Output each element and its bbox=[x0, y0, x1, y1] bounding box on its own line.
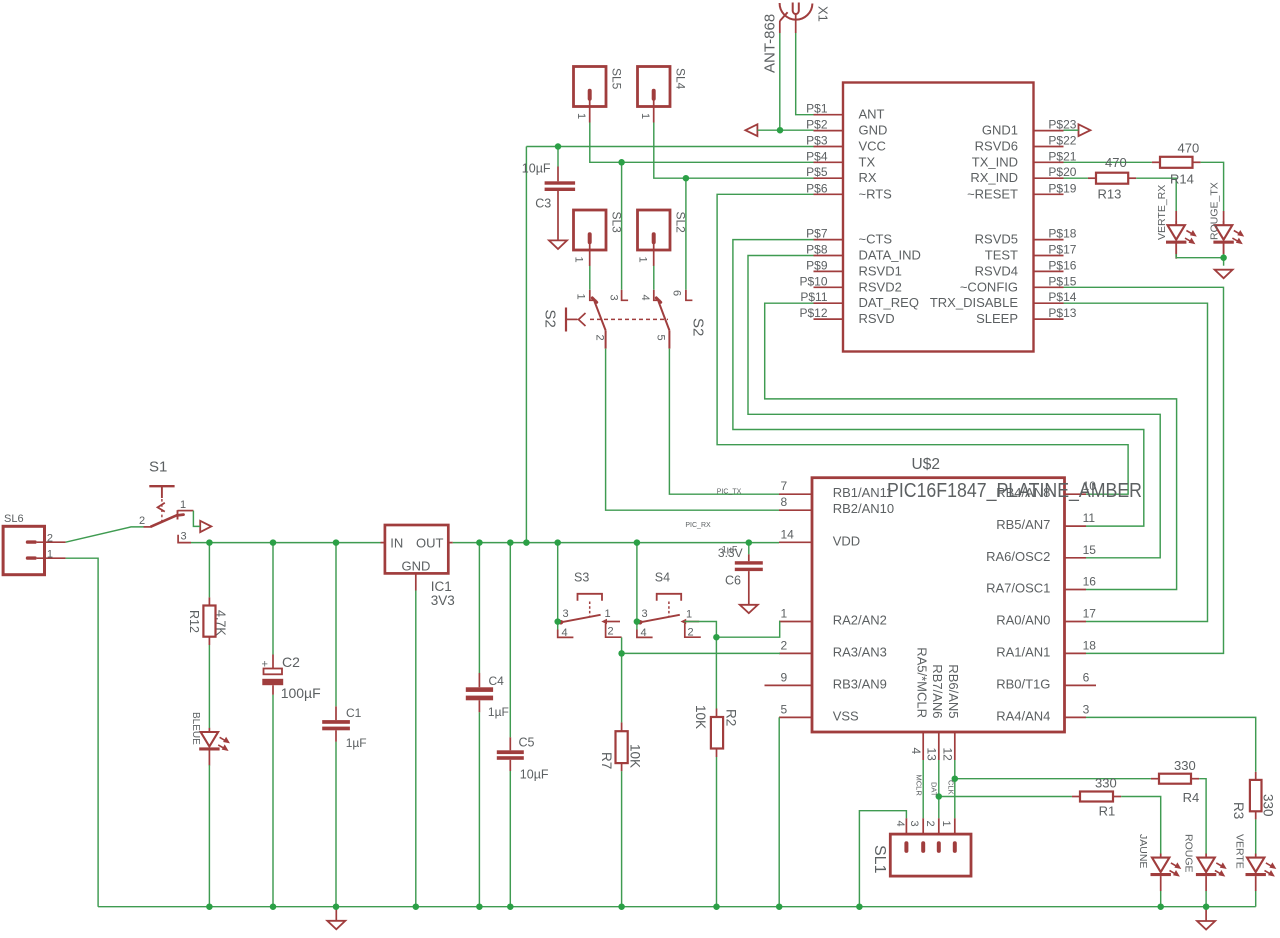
svg-text:P$2: P$2 bbox=[806, 118, 828, 132]
svg-text:6: 6 bbox=[671, 290, 683, 296]
svg-text:~CTS: ~CTS bbox=[859, 232, 893, 247]
svg-text:DAT_REQ: DAT_REQ bbox=[859, 295, 919, 310]
svg-text:P$5: P$5 bbox=[806, 165, 828, 179]
svg-text:4: 4 bbox=[639, 295, 651, 301]
svg-text:3.3V: 3.3V bbox=[718, 546, 743, 560]
svg-text:2: 2 bbox=[594, 335, 606, 341]
svg-text:RB1/AN11: RB1/AN11 bbox=[833, 485, 893, 500]
svg-text:RB6/AN5: RB6/AN5 bbox=[946, 664, 961, 718]
svg-text:P$15: P$15 bbox=[1048, 274, 1076, 288]
svg-text:17: 17 bbox=[1083, 607, 1097, 621]
svg-text:DAT: DAT bbox=[930, 782, 939, 797]
svg-text:P$18: P$18 bbox=[1048, 227, 1076, 241]
svg-text:MCLR: MCLR bbox=[915, 775, 924, 797]
svg-text:SL4: SL4 bbox=[674, 68, 688, 90]
svg-text:CLK: CLK bbox=[947, 780, 956, 795]
svg-text:R7: R7 bbox=[599, 752, 614, 769]
svg-text:JAUNE: JAUNE bbox=[1137, 834, 1149, 868]
svg-text:RA5/*MCLR: RA5/*MCLR bbox=[914, 647, 929, 718]
svg-text:RSVD2: RSVD2 bbox=[859, 279, 902, 294]
svg-text:330: 330 bbox=[1260, 794, 1275, 817]
svg-text:9: 9 bbox=[781, 670, 788, 684]
svg-text:ROUGE_TX: ROUGE_TX bbox=[1209, 182, 1221, 240]
svg-text:R14: R14 bbox=[1170, 172, 1194, 187]
svg-text:R2: R2 bbox=[723, 709, 738, 726]
svg-text:RA1/AN1: RA1/AN1 bbox=[996, 644, 1050, 659]
svg-text:U$2: U$2 bbox=[912, 456, 940, 473]
svg-text:GND1: GND1 bbox=[982, 123, 1018, 138]
svg-text:VSS: VSS bbox=[833, 708, 859, 723]
svg-text:P$7: P$7 bbox=[806, 227, 828, 241]
svg-text:VERTE: VERTE bbox=[1233, 834, 1245, 869]
svg-text:GND: GND bbox=[859, 123, 888, 138]
svg-text:C3: C3 bbox=[535, 197, 551, 211]
svg-text:3: 3 bbox=[642, 608, 648, 620]
svg-text:4: 4 bbox=[562, 627, 568, 639]
svg-text:4: 4 bbox=[909, 748, 923, 755]
svg-text:2: 2 bbox=[688, 627, 694, 639]
svg-text:RSVD4: RSVD4 bbox=[975, 263, 1018, 278]
svg-text:SL2: SL2 bbox=[674, 212, 688, 234]
svg-text:1: 1 bbox=[637, 257, 649, 263]
svg-text:OUT: OUT bbox=[416, 536, 444, 551]
svg-text:S4: S4 bbox=[655, 570, 670, 584]
svg-text:PIC_RX: PIC_RX bbox=[685, 522, 711, 529]
svg-text:RSVD6: RSVD6 bbox=[975, 139, 1018, 154]
svg-text:IN: IN bbox=[390, 536, 403, 551]
svg-text:P$17: P$17 bbox=[1048, 243, 1076, 257]
svg-text:4.7K: 4.7K bbox=[214, 610, 228, 636]
svg-text:1µF: 1µF bbox=[346, 736, 367, 750]
svg-text:IC1: IC1 bbox=[431, 579, 452, 594]
svg-text:2: 2 bbox=[924, 821, 936, 827]
svg-text:470: 470 bbox=[1178, 140, 1200, 155]
svg-text:10µF: 10µF bbox=[520, 768, 549, 782]
svg-text:18: 18 bbox=[1083, 638, 1097, 652]
svg-text:RB3/AN9: RB3/AN9 bbox=[833, 676, 887, 691]
svg-text:PIC16F1847_PLATINE_AMBER: PIC16F1847_PLATINE_AMBER bbox=[887, 480, 1142, 502]
svg-text:R3: R3 bbox=[1231, 802, 1246, 819]
svg-text:SL3: SL3 bbox=[610, 212, 624, 234]
svg-text:SL1: SL1 bbox=[871, 845, 888, 874]
svg-text:R12: R12 bbox=[187, 610, 201, 633]
svg-text:~CONFIG: ~CONFIG bbox=[960, 279, 1018, 294]
svg-text:1: 1 bbox=[781, 607, 788, 621]
svg-text:S2: S2 bbox=[690, 318, 707, 336]
svg-text:6: 6 bbox=[1083, 670, 1090, 684]
svg-text:~RESET: ~RESET bbox=[967, 186, 1018, 201]
svg-text:~RTS: ~RTS bbox=[859, 186, 893, 201]
svg-text:P$8: P$8 bbox=[806, 243, 828, 257]
svg-text:P$22: P$22 bbox=[1048, 134, 1076, 148]
svg-text:1: 1 bbox=[940, 821, 952, 827]
svg-text:2: 2 bbox=[608, 626, 614, 638]
svg-text:VERTE_RX: VERTE_RX bbox=[1156, 185, 1168, 240]
svg-text:ANT: ANT bbox=[859, 107, 885, 122]
svg-text:RSVD1: RSVD1 bbox=[859, 263, 902, 278]
svg-text:2: 2 bbox=[139, 515, 145, 527]
svg-text:100µF: 100µF bbox=[281, 685, 321, 701]
svg-text:S1: S1 bbox=[149, 459, 167, 476]
svg-text:TX: TX bbox=[859, 154, 876, 169]
svg-text:2: 2 bbox=[47, 533, 53, 545]
svg-text:PIC_TX: PIC_TX bbox=[717, 489, 742, 496]
svg-text:P$10: P$10 bbox=[799, 274, 827, 288]
svg-text:P$13: P$13 bbox=[1048, 306, 1076, 320]
svg-text:P$3: P$3 bbox=[806, 134, 828, 148]
svg-text:RA2/AN2: RA2/AN2 bbox=[833, 613, 887, 628]
svg-text:GND: GND bbox=[402, 559, 431, 574]
svg-text:330: 330 bbox=[1174, 758, 1196, 773]
svg-text:BLEUE: BLEUE bbox=[190, 712, 201, 745]
svg-text:RSVD: RSVD bbox=[859, 311, 895, 326]
svg-text:1: 1 bbox=[573, 257, 585, 263]
svg-text:1µF: 1µF bbox=[488, 705, 509, 719]
svg-text:P$11: P$11 bbox=[800, 290, 827, 304]
svg-text:RX: RX bbox=[859, 170, 877, 185]
svg-text:3: 3 bbox=[181, 531, 187, 543]
svg-text:11: 11 bbox=[1083, 511, 1096, 525]
svg-text:RB2/AN10: RB2/AN10 bbox=[833, 501, 894, 516]
svg-text:16: 16 bbox=[1083, 575, 1097, 589]
svg-text:S2: S2 bbox=[542, 310, 559, 328]
svg-text:4: 4 bbox=[641, 627, 647, 639]
svg-text:5: 5 bbox=[781, 702, 788, 716]
svg-text:RB7/AN6: RB7/AN6 bbox=[930, 664, 945, 718]
svg-text:3: 3 bbox=[563, 608, 569, 620]
svg-text:1: 1 bbox=[180, 499, 186, 511]
svg-text:7: 7 bbox=[781, 479, 788, 493]
svg-text:3: 3 bbox=[1083, 702, 1090, 716]
svg-text:RSVD5: RSVD5 bbox=[975, 232, 1018, 247]
svg-text:RB0/T1G: RB0/T1G bbox=[996, 676, 1050, 691]
svg-text:14: 14 bbox=[781, 527, 795, 541]
svg-text:P$21: P$21 bbox=[1048, 149, 1076, 163]
svg-text:TEST: TEST bbox=[985, 248, 1018, 263]
svg-text:S3: S3 bbox=[574, 570, 589, 584]
svg-text:SLEEP: SLEEP bbox=[976, 311, 1018, 326]
svg-text:3V3: 3V3 bbox=[431, 593, 455, 608]
svg-text:TRX_DISABLE: TRX_DISABLE bbox=[930, 295, 1018, 310]
svg-text:3: 3 bbox=[608, 295, 620, 301]
svg-text:330: 330 bbox=[1095, 776, 1117, 791]
svg-text:1: 1 bbox=[686, 609, 692, 621]
svg-text:X1: X1 bbox=[816, 6, 831, 22]
svg-text:R13: R13 bbox=[1098, 187, 1122, 202]
svg-text:P$9: P$9 bbox=[806, 258, 828, 272]
svg-text:15: 15 bbox=[1083, 543, 1097, 557]
svg-text:4: 4 bbox=[894, 821, 906, 827]
svg-text:P$4: P$4 bbox=[806, 149, 828, 163]
svg-text:1: 1 bbox=[575, 113, 587, 119]
svg-text:P$23: P$23 bbox=[1048, 118, 1076, 132]
svg-text:P$1: P$1 bbox=[806, 102, 828, 116]
svg-text:P$12: P$12 bbox=[799, 306, 827, 320]
svg-text:C5: C5 bbox=[519, 736, 535, 750]
svg-text:13: 13 bbox=[924, 748, 938, 762]
svg-text:ANT-868: ANT-868 bbox=[762, 14, 779, 73]
svg-text:RA0/AN0: RA0/AN0 bbox=[996, 613, 1050, 628]
svg-text:VCC: VCC bbox=[859, 139, 886, 154]
svg-text:470: 470 bbox=[1105, 155, 1127, 170]
svg-text:5: 5 bbox=[655, 335, 667, 341]
svg-text:2: 2 bbox=[781, 638, 788, 652]
svg-text:P$20: P$20 bbox=[1048, 165, 1076, 179]
svg-text:+: + bbox=[262, 659, 268, 671]
svg-text:P$19: P$19 bbox=[1048, 181, 1076, 195]
svg-text:TX_IND: TX_IND bbox=[972, 154, 1018, 169]
svg-text:C4: C4 bbox=[489, 674, 505, 688]
svg-text:C1: C1 bbox=[346, 706, 362, 720]
svg-text:RX_IND: RX_IND bbox=[970, 170, 1018, 185]
svg-text:VDD: VDD bbox=[833, 533, 860, 548]
svg-text:8: 8 bbox=[781, 495, 788, 509]
svg-text:10K: 10K bbox=[693, 705, 708, 729]
svg-text:DATA_IND: DATA_IND bbox=[859, 248, 921, 263]
svg-text:1: 1 bbox=[639, 113, 651, 119]
svg-text:RA3/AN3: RA3/AN3 bbox=[833, 644, 887, 659]
svg-text:1: 1 bbox=[47, 549, 53, 561]
svg-text:P$14: P$14 bbox=[1048, 290, 1076, 304]
svg-text:12: 12 bbox=[940, 748, 954, 762]
svg-text:P$16: P$16 bbox=[1048, 258, 1076, 272]
svg-text:RA7/OSC1: RA7/OSC1 bbox=[986, 581, 1050, 596]
svg-text:10K: 10K bbox=[627, 744, 642, 768]
svg-text:P$6: P$6 bbox=[806, 181, 828, 195]
svg-text:ROUGE: ROUGE bbox=[1183, 834, 1195, 873]
svg-text:C2: C2 bbox=[282, 654, 300, 670]
svg-text:RB5/AN7: RB5/AN7 bbox=[996, 517, 1050, 532]
svg-text:RA6/OSC2: RA6/OSC2 bbox=[986, 549, 1050, 564]
svg-text:SL6: SL6 bbox=[4, 513, 24, 525]
svg-text:RA4/AN4: RA4/AN4 bbox=[996, 708, 1050, 723]
svg-text:C6: C6 bbox=[725, 574, 741, 588]
svg-text:10µF: 10µF bbox=[522, 161, 551, 175]
svg-text:3: 3 bbox=[908, 821, 920, 827]
svg-text:1: 1 bbox=[575, 294, 587, 300]
svg-text:1: 1 bbox=[605, 608, 611, 620]
svg-text:R1: R1 bbox=[1099, 804, 1116, 819]
svg-text:SL5: SL5 bbox=[610, 68, 624, 90]
svg-text:R4: R4 bbox=[1183, 790, 1200, 805]
